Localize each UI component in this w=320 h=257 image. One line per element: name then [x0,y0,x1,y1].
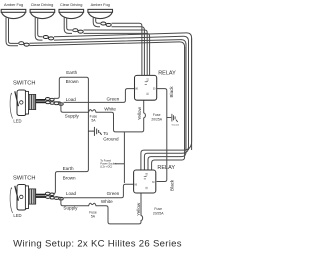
wire lamp L4 stem and cable to relay U1 [93,18,144,76]
switch S1 body [15,90,29,116]
connector pair on lamp L4 cable [101,22,111,26]
lamp L1 (Amber Fog) [1,9,26,18]
label To Fused Power Socket (12v +DC) [100,158,116,168]
svg-text:Brown: Brown [66,79,79,84]
connector pairs at switch S2 (earth, supply) [45,192,54,199]
svg-text:LED: LED [13,213,21,218]
svg-text:20/25A: 20/25A [151,117,162,121]
switch S1 threaded barrel [29,94,36,109]
wire right-edge bundle turning left into relay U2 top feeds [141,38,192,170]
wire load 2 / green to relay U2 pin 86 [63,184,133,198]
relay U1 pin marks [135,78,156,96]
svg-text:Fuse: Fuse [154,207,162,211]
wire lamp L3 stem and cable to relay U1 [64,18,149,76]
svg-text:SWITCH: SWITCH [13,81,35,87]
svg-text:Brown: Brown [63,176,76,181]
svg-text:Supply: Supply [63,205,78,210]
wire to fused power socket branch [123,132,125,183]
connector pair on lamp L2 cable [43,36,54,40]
svg-text:Wiring Setup: 2x KC Hilites 26: Wiring Setup: 2x KC Hilites 26 Series [13,238,182,249]
switch S1 lead wires [36,100,46,102]
switch S2 threaded barrel [29,189,36,204]
svg-text:Load: Load [66,97,77,102]
svg-text:Ground: Ground [103,137,119,142]
connector pair on lamp L3 cable [73,29,83,33]
wire supply 1 with fuse, white/yellow to relay U1 pin 87 [54,100,145,132]
svg-text:Amber Fog: Amber Fog [91,2,110,7]
svg-text:Earth: Earth [66,70,77,75]
svg-text:Fuse: Fuse [153,113,161,117]
svg-text:5A: 5A [91,119,96,123]
switch S2 lead wires [36,195,46,197]
svg-text:Earth: Earth [63,166,74,171]
connector pair on load wire of S1 [54,102,63,105]
svg-text:RELAY: RELAY [157,165,175,171]
svg-text:Supply: Supply [65,113,80,118]
relay U1 box [135,75,157,100]
svg-text:Amber Fog: Amber Fog [4,2,23,7]
wire lamp L2 stem and cable to right edge [35,18,191,151]
connector pair on lamp L1 cable [19,42,30,46]
svg-text:Green: Green [107,97,120,102]
switch S2 body [15,185,29,211]
svg-text:White: White [104,106,116,111]
wire supply 2 with fuse, white/yellow to relay U2 pin 87 [54,193,143,224]
ground symbol (relay coil ground) [167,114,178,122]
svg-text:Load: Load [66,191,77,196]
svg-text:Black: Black [169,86,174,98]
svg-text:SWITCH: SWITCH [13,175,35,181]
svg-text:Black: Black [169,179,174,191]
relay U2 box [134,170,156,193]
svg-text:White: White [101,199,113,204]
svg-text:Green: Green [107,191,120,196]
connector pair on load wire of S2 [54,197,63,200]
lamp L3 (Clear Driving) [59,9,84,18]
svg-text:5A: 5A [91,214,96,218]
wire black: relay U1 pin 85 down to relay U2 pin 85 [157,89,167,182]
wire load 1 / green to relay U1 pin 86 [63,89,134,103]
svg-text:Ground: Ground [172,124,180,127]
wire lamp L1 stem and cable to right edge [6,18,186,151]
svg-text:To: To [103,131,108,136]
lamp L2 (Clear Driving) [30,9,55,18]
svg-text:LED: LED [13,118,21,123]
connector pairs at switch S1 (earth, supply) [45,98,54,105]
svg-text:Yellow: Yellow [137,106,142,120]
svg-text:Yellow: Yellow [136,202,141,216]
svg-text:Clear Driving: Clear Driving [31,2,54,7]
ground symbol (main, To Ground) [88,127,101,136]
relay U2 pin marks [135,173,156,190]
wire earth spine (S1 earth up over box, down to S2 earth) [47,77,89,193]
svg-text:20/25A: 20/25A [153,212,164,216]
svg-text:Clear Driving: Clear Driving [60,2,83,7]
lamp L4 (Amber Fog) [88,9,113,18]
svg-text:RELAY: RELAY [158,70,176,76]
svg-text:(12v +DC): (12v +DC) [100,164,112,168]
